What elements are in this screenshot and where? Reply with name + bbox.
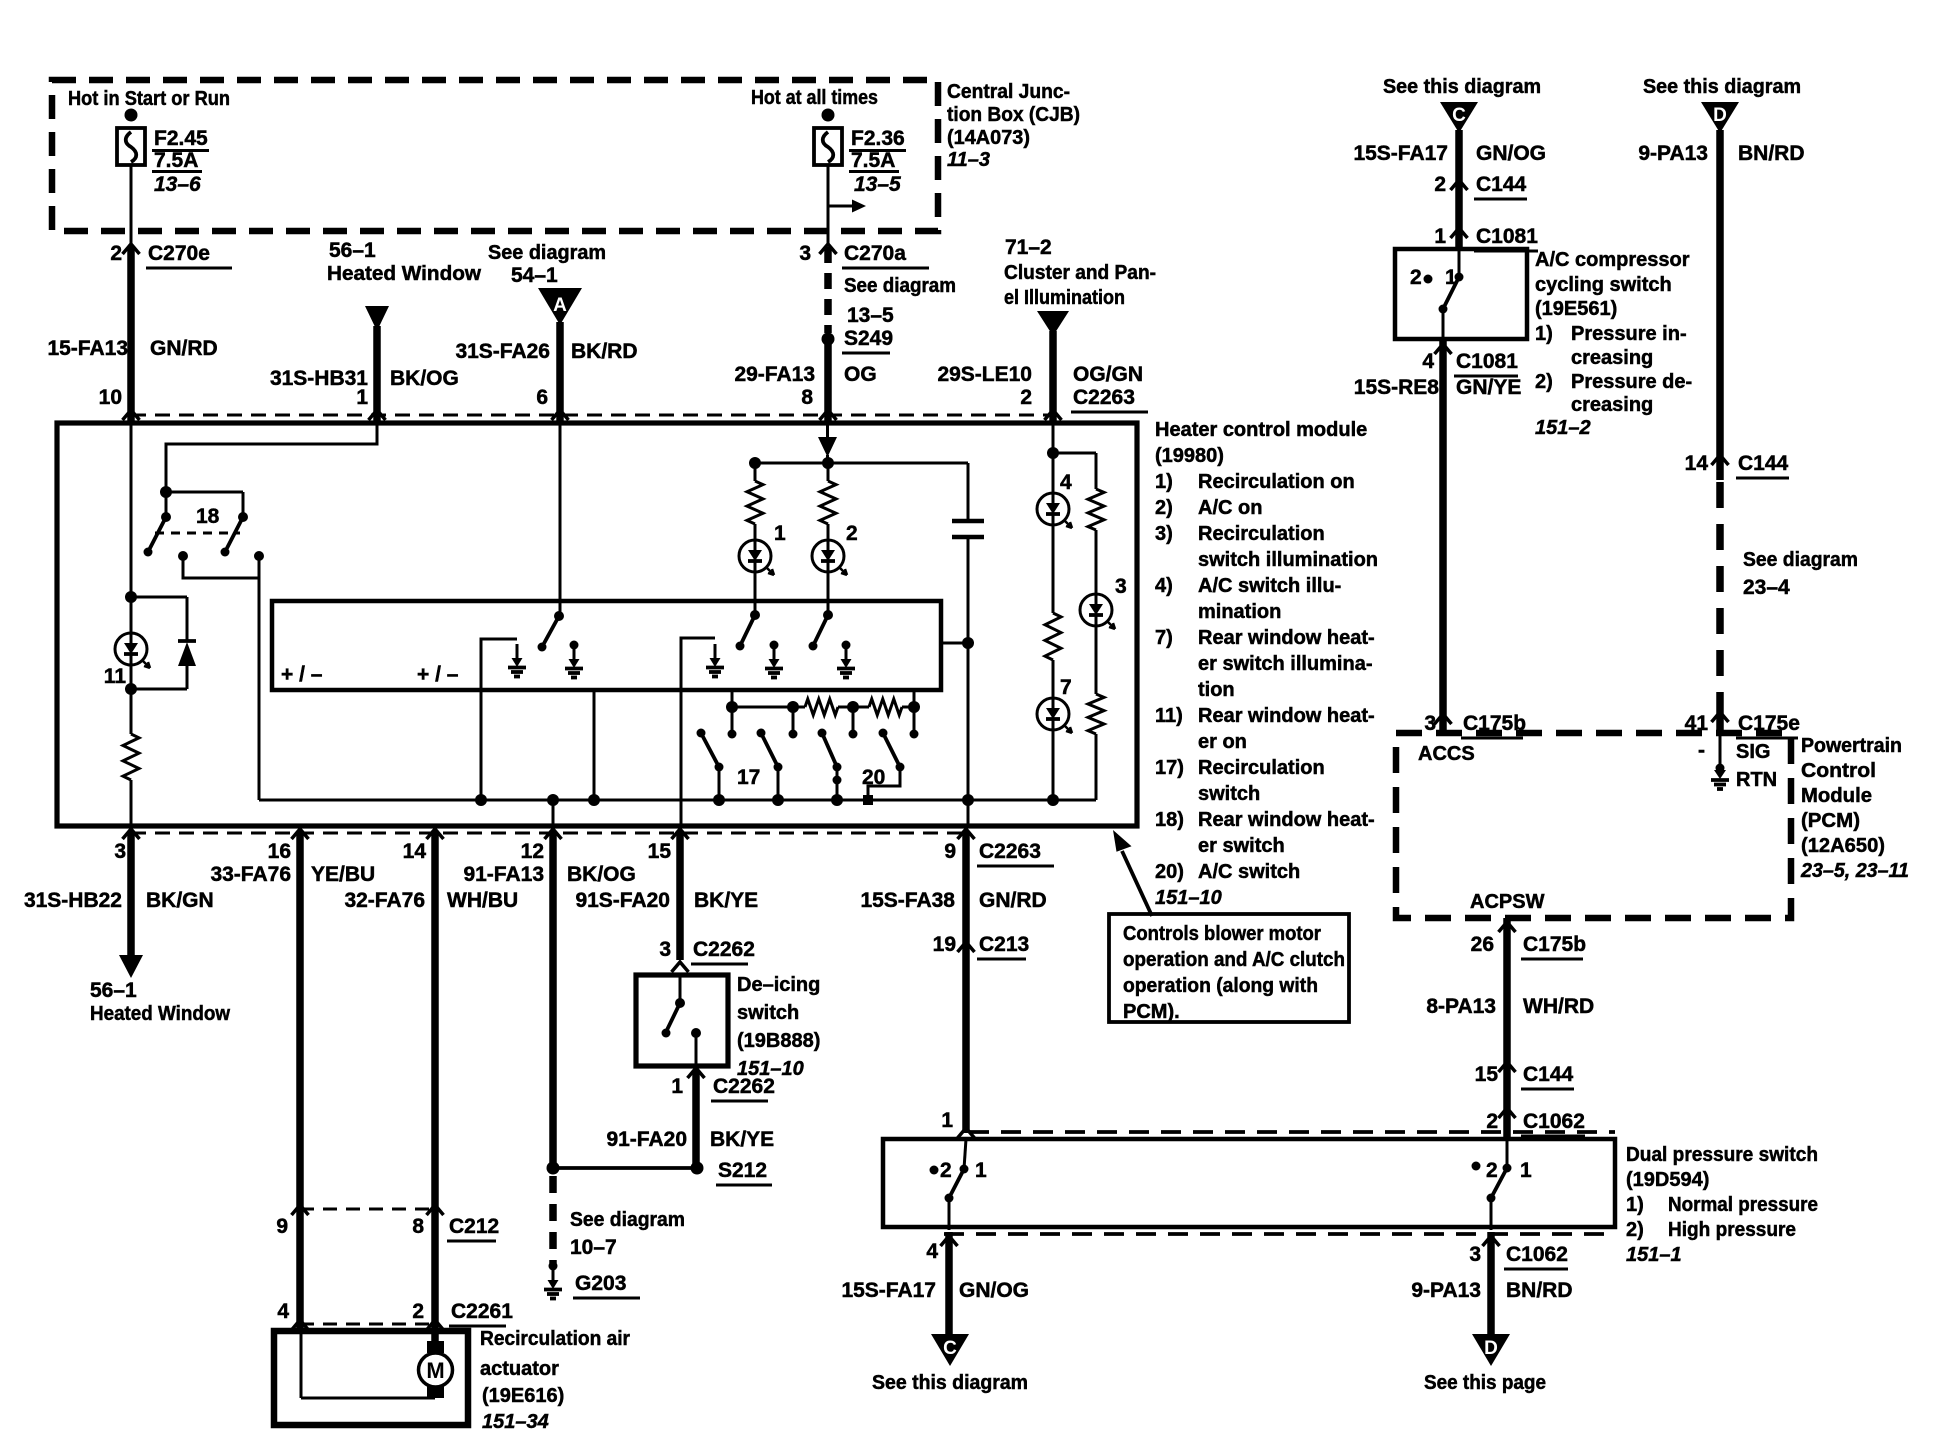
triangle marker A (538, 288, 582, 325)
LED 11 bottom rail (131, 688, 187, 691)
ground contact G-b (570, 641, 579, 650)
svg-text:20): 20) (1155, 861, 1184, 883)
svg-text:11–3: 11–3 (947, 149, 990, 171)
svg-text:See this diagram: See this diagram (1643, 76, 1801, 98)
connector C1062 chevron top (1499, 1108, 1516, 1118)
connector C213 chevron (958, 942, 975, 952)
svg-text:7.5A: 7.5A (154, 149, 198, 172)
svg-text:2): 2) (1535, 371, 1553, 393)
chevron at ACPSW exit (1499, 922, 1516, 932)
top distribution line to LEDs and capacitor (755, 462, 968, 465)
svg-text:31S-FA26: 31S-FA26 (455, 340, 550, 363)
svg-text:switch illumination: switch illumination (1198, 549, 1378, 571)
svg-text:15-FA13: 15-FA13 (47, 337, 128, 360)
module bottom connector dashed line (131, 832, 968, 835)
svg-text:M: M (426, 1358, 444, 1383)
svg-text:17: 17 (737, 766, 760, 789)
connector C175b chevron at PCM (1435, 714, 1452, 724)
arrow to 56-1 Heated Window (119, 955, 143, 978)
wire pin 12 to bottom rail (552, 800, 555, 826)
svg-text:el Illumination: el Illumination (1004, 287, 1125, 309)
splice S212 junction dot right (691, 1162, 704, 1175)
svg-text:3: 3 (1424, 712, 1436, 735)
CJB dashed enclosure box (Central Junction Box) (52, 80, 938, 231)
junction dot capacitor branch to inner box (962, 637, 974, 649)
svg-text:PCM).: PCM). (1123, 1001, 1180, 1023)
svg-text:C175b: C175b (1463, 712, 1526, 735)
De-icing switch box (636, 975, 728, 1066)
svg-text:15S-FA17: 15S-FA17 (841, 1279, 936, 1302)
svg-text:actuator: actuator (480, 1358, 559, 1380)
wire 15-FA13 GN/RD (thick) (127, 246, 135, 423)
svg-text:15: 15 (648, 840, 672, 863)
callout arrow to module corner (1122, 851, 1152, 916)
svg-text:9: 9 (276, 1215, 288, 1238)
wire 91-FA13 BK/OG (thick) (549, 831, 557, 1168)
svg-text:A/C switch illu-: A/C switch illu- (1198, 575, 1341, 597)
svg-text:54–1: 54–1 (511, 264, 558, 287)
connector C2261 dashed line (300, 1323, 435, 1326)
chevron below cycling switch (1435, 344, 1452, 354)
svg-text:See diagram: See diagram (488, 242, 606, 264)
svg-text:S212: S212 (718, 1159, 767, 1182)
svg-text:Controls blower motor: Controls blower motor (1123, 923, 1321, 945)
connector C270a chevron (820, 244, 837, 254)
wire fuse F2.45 to CJB edge (130, 165, 133, 243)
svg-text:OG: OG (844, 363, 877, 386)
junction dot LED 11 top (125, 591, 137, 603)
svg-text:C2262: C2262 (713, 1075, 775, 1098)
svg-text:GN/YE: GN/YE (1456, 376, 1521, 399)
svg-text:BK/RD: BK/RD (571, 340, 638, 363)
internal connection box-bottom to rail (593, 690, 596, 800)
svg-text:14: 14 (1685, 452, 1709, 475)
svg-text:151–2: 151–2 (1535, 417, 1591, 439)
wire 33-FA76 YE/BU (thick) (296, 831, 304, 1331)
svg-text:4: 4 (277, 1300, 289, 1323)
LED 11 parallel diode top rail (131, 596, 187, 599)
wire ACPSW to dual pressure switch (thick) (1503, 918, 1511, 1139)
LED 2 switch lever (823, 610, 833, 620)
svg-text:32-FA76: 32-FA76 (344, 889, 425, 912)
svg-text:BN/RD: BN/RD (1738, 142, 1805, 165)
svg-text:operation (along with: operation (along with (1123, 975, 1318, 997)
svg-text:ACCS: ACCS (1418, 743, 1475, 765)
svg-text:71–2: 71–2 (1005, 236, 1052, 259)
svg-text:C2263: C2263 (1073, 386, 1135, 409)
svg-text:15S-RE8: 15S-RE8 (1354, 376, 1440, 399)
Dual pressure switch box (19D594) (883, 1139, 1615, 1227)
svg-text:19: 19 (933, 933, 956, 956)
svg-text:1: 1 (941, 1109, 953, 1132)
svg-text:operation and A/C clutch: operation and A/C clutch (1123, 949, 1345, 971)
svg-text:C175e: C175e (1738, 712, 1800, 735)
dual pressure left switch pins and lever (964, 1139, 966, 1169)
svg-text:4: 4 (1422, 350, 1434, 373)
svg-text:C1081: C1081 (1456, 350, 1518, 373)
svg-text:2): 2) (1626, 1219, 1644, 1241)
LED 1 branch with resistor (754, 463, 757, 481)
svg-text:91-FA13: 91-FA13 (463, 863, 544, 886)
svg-text:13–5: 13–5 (847, 304, 894, 327)
svg-text:7): 7) (1155, 627, 1173, 649)
chevron below dual pressure switch left (941, 1236, 958, 1246)
svg-text:1): 1) (1155, 471, 1173, 493)
connector C212 dashed line (300, 1208, 435, 1211)
svg-text:See this diagram: See this diagram (872, 1372, 1028, 1394)
svg-text:D: D (1713, 105, 1727, 126)
svg-text:151–10: 151–10 (1155, 887, 1222, 909)
svg-text:BN/RD: BN/RD (1506, 1279, 1573, 1302)
svg-text:Control: Control (1801, 760, 1876, 782)
svg-text:2: 2 (1020, 386, 1032, 409)
wire 91S-FA20 BK/YE (thick) (676, 831, 684, 960)
control electronics inner box (272, 601, 941, 690)
wire 32-FA76 WH/BU (thick) (431, 831, 439, 1345)
svg-text:(PCM): (PCM) (1801, 810, 1860, 832)
svg-text:17): 17) (1155, 757, 1184, 779)
svg-text:C: C (943, 1338, 957, 1359)
svg-text:C2262: C2262 (693, 938, 755, 961)
LED 2 branch with resistor (827, 463, 830, 481)
svg-text:A/C switch: A/C switch (1198, 861, 1300, 883)
svg-text:3: 3 (1115, 575, 1127, 598)
connector C1081 chevron top (1451, 228, 1468, 238)
resistor below LED 11 (130, 689, 133, 734)
svg-text:See diagram: See diagram (1743, 549, 1858, 571)
svg-text:(19D594): (19D594) (1626, 1169, 1709, 1191)
connector C270e chevron (123, 244, 140, 254)
svg-text:BK/YE: BK/YE (694, 889, 758, 912)
switch 17 lever b (757, 729, 766, 738)
triangle marker D bottom (1472, 1334, 1510, 1366)
svg-text:er on: er on (1198, 731, 1247, 753)
stub inner box right edge to capacitor branch (941, 642, 968, 645)
svg-text:29S-LE10: 29S-LE10 (937, 363, 1032, 386)
module bottom common rail (259, 799, 1096, 802)
svg-text:8: 8 (412, 1215, 424, 1238)
wire dashed segment to 23-4 (1716, 482, 1724, 692)
svg-text:(14A073): (14A073) (947, 127, 1030, 149)
svg-text:Hot at all times: Hot at all times (751, 87, 878, 109)
switch 18 contacts (178, 551, 188, 561)
svg-text:De–icing: De–icing (737, 974, 820, 996)
svg-text:GN/RD: GN/RD (979, 889, 1047, 912)
LED 4 indicator (1052, 453, 1055, 493)
wire 15S-RE8 GN/YE (thick) (1439, 341, 1447, 733)
switch 17 lever a (697, 729, 706, 738)
svg-text:C2263: C2263 (979, 840, 1041, 863)
svg-text:16: 16 (268, 840, 291, 863)
right column resistor above LED 3 (1095, 453, 1098, 489)
svg-text:F2.45: F2.45 (154, 127, 208, 150)
internal ground G-c with feed jog to pin 15 (681, 638, 715, 826)
svg-text:2: 2 (846, 522, 858, 545)
triangle marker C bottom (931, 1334, 969, 1366)
svg-text:7.5A: 7.5A (851, 149, 895, 172)
svg-text:Recirculation on: Recirculation on (1198, 471, 1355, 493)
svg-text:GN/OG: GN/OG (1476, 142, 1546, 165)
wire C270a dashed segment (824, 247, 832, 333)
wire 29-FA13 OG (thick) (824, 339, 832, 423)
svg-text:WH/RD: WH/RD (1523, 995, 1594, 1018)
svg-text:2: 2 (1434, 173, 1446, 196)
svg-text:GN/OG: GN/OG (959, 1279, 1029, 1302)
svg-text:15: 15 (1475, 1063, 1499, 1086)
svg-text:C1062: C1062 (1506, 1243, 1568, 1266)
wire switch 18 contact to bottom rail (258, 556, 261, 800)
svg-text:8-PA13: 8-PA13 (1426, 995, 1496, 1018)
svg-text:56–1: 56–1 (329, 239, 376, 262)
chevron at dual pressure switch entry (958, 1128, 975, 1138)
LED 3 indicator (1080, 594, 1112, 626)
wire 15S-FA17 GN/OG top (thick) (1455, 130, 1463, 248)
svg-text:4: 4 (1060, 471, 1072, 494)
svg-text:4): 4) (1155, 575, 1173, 597)
svg-text:cycling switch: cycling switch (1535, 274, 1672, 296)
resistor below LED 4 (1052, 525, 1055, 613)
ground contact G-d (770, 641, 779, 650)
connector C2262 chevron bottom (688, 1068, 705, 1078)
svg-text:C1081: C1081 (1476, 225, 1538, 248)
wire from pin 1 to switch 18 (166, 423, 377, 491)
svg-text:C1062: C1062 (1523, 1110, 1585, 1133)
svg-text:C2261: C2261 (451, 1300, 513, 1323)
svg-text:er switch: er switch (1198, 835, 1285, 857)
connector C2262 chevron top (672, 962, 689, 972)
svg-text:OG/GN: OG/GN (1073, 363, 1143, 386)
switch 18 left lever (165, 492, 168, 517)
svg-text:9: 9 (944, 840, 956, 863)
callout box Controls blower motor (1109, 914, 1349, 1022)
wire to C175e (thick) (1716, 692, 1724, 733)
svg-text:High pressure: High pressure (1668, 1219, 1796, 1241)
svg-text:91S-FA20: 91S-FA20 (575, 889, 670, 912)
svg-text:15S-FA38: 15S-FA38 (860, 889, 955, 912)
svg-text:Heated Window: Heated Window (90, 1003, 230, 1025)
switch 20 lever b (879, 729, 888, 738)
fuse F2.45 symbol (125, 109, 138, 122)
svg-text:C212: C212 (449, 1215, 499, 1238)
splice S212 junction dot (547, 1162, 560, 1175)
svg-text:BK/OG: BK/OG (567, 863, 636, 886)
connector C144 chevron mid (1499, 1062, 1516, 1072)
switch 18 right lever (242, 492, 245, 517)
svg-text:41: 41 (1685, 712, 1709, 735)
svg-text:12: 12 (521, 840, 544, 863)
svg-text:13–6: 13–6 (154, 173, 201, 196)
motor M symbol (427, 1341, 444, 1353)
svg-text:BK/YE: BK/YE (710, 1128, 774, 1151)
svg-text:20: 20 (862, 766, 885, 789)
dual pressure switch dashed lines (969, 1130, 1615, 1134)
svg-text:31S-HB22: 31S-HB22 (24, 889, 122, 912)
svg-text:(19E616): (19E616) (482, 1385, 564, 1407)
chevrons at module top pins (123, 410, 140, 420)
A/C compressor cycling switch box (19E561) (1395, 249, 1527, 339)
junction dot switch 18 feed (160, 486, 172, 498)
wire 31S-FA26 BK/RD (thick) (556, 322, 564, 423)
svg-text:C: C (1452, 105, 1466, 126)
svg-text:6: 6 (536, 386, 548, 409)
svg-text:GN/RD: GN/RD (150, 337, 218, 360)
svg-text:33-FA76: 33-FA76 (210, 863, 291, 886)
resistor below LED 3 (1095, 626, 1098, 694)
svg-text:SIG: SIG (1736, 741, 1770, 763)
svg-text:2): 2) (1155, 497, 1173, 519)
svg-text:Recirculation: Recirculation (1198, 523, 1325, 545)
svg-text:2: 2 (1486, 1110, 1498, 1133)
capacitor C-a (967, 463, 970, 521)
svg-text:10: 10 (99, 386, 122, 409)
diode D1 beside LED 11 (cathode up) (186, 597, 189, 641)
svg-text:1: 1 (356, 386, 368, 409)
svg-text:BK/OG: BK/OG (390, 367, 459, 390)
svg-text:mination: mination (1198, 601, 1281, 623)
svg-text:-: - (1698, 739, 1705, 762)
PCM dashed box (1396, 733, 1791, 918)
svg-text:8: 8 (801, 386, 813, 409)
svg-text:F2.36: F2.36 (851, 127, 905, 150)
svg-text:creasing: creasing (1571, 394, 1653, 416)
svg-text:C270a: C270a (844, 242, 906, 265)
wire 15S-FA38 GN/RD (thick) (962, 831, 970, 1133)
svg-text:C144: C144 (1738, 452, 1789, 475)
pin 8 feed arrow inside module (818, 437, 837, 457)
svg-text:2: 2 (1486, 1159, 1498, 1182)
svg-text:ACPSW: ACPSW (1470, 891, 1545, 913)
svg-text:3: 3 (659, 938, 671, 961)
switch 18 gang dashed link (155, 532, 240, 535)
svg-text:1: 1 (1520, 1159, 1532, 1182)
svg-text:A/C on: A/C on (1198, 497, 1262, 519)
connector C144 chevron top (1451, 180, 1468, 190)
svg-text:18): 18) (1155, 809, 1184, 831)
svg-text:Module: Module (1801, 785, 1872, 807)
svg-text:1: 1 (671, 1075, 683, 1098)
Recirculation air actuator box (274, 1331, 468, 1425)
svg-text:14: 14 (403, 840, 427, 863)
svg-text:YE/BU: YE/BU (311, 863, 375, 886)
internal ground G-a with feed jog (481, 639, 517, 690)
wire 31S-HB31 BK/OG (thick) (373, 326, 381, 423)
dual pressure right switch pins and lever (1506, 1139, 1509, 1168)
svg-text:BK/GN: BK/GN (146, 889, 214, 912)
svg-text:C144: C144 (1476, 173, 1527, 196)
arrow triangle into wire 29S-LE10 (1037, 311, 1069, 336)
svg-text:switch: switch (737, 1002, 799, 1024)
svg-text:3): 3) (1155, 523, 1173, 545)
PCM internal signal return ground (1719, 733, 1722, 770)
svg-text:2: 2 (1410, 266, 1422, 289)
svg-text:2: 2 (412, 1300, 424, 1323)
svg-text:Powertrain: Powertrain (1801, 735, 1902, 757)
LED cluster feed from pin 2 C2263 (1052, 423, 1055, 453)
Heater control module box (19980) (57, 423, 1137, 826)
switch (pin 6 feed) inside inner box (559, 423, 562, 616)
triangle marker D top (1701, 102, 1739, 133)
svg-text:23–4: 23–4 (1743, 576, 1790, 599)
switch 18 top rail (166, 491, 243, 494)
switch 20 lever a (818, 729, 827, 738)
svg-text:2: 2 (940, 1159, 952, 1182)
svg-text:151–1: 151–1 (1626, 1244, 1682, 1266)
module top connector dashed line (131, 414, 1053, 417)
svg-text:Pressure in-: Pressure in- (1571, 323, 1687, 345)
svg-text:(19980): (19980) (1155, 445, 1224, 467)
svg-text:S249: S249 (844, 327, 893, 350)
module internal wire from pin 10 to LED 11 (130, 423, 133, 597)
svg-text:D: D (1484, 1338, 1498, 1359)
svg-text:+ / –: + / – (281, 663, 323, 686)
svg-text:(12A650): (12A650) (1801, 835, 1885, 857)
svg-text:91-FA20: 91-FA20 (606, 1128, 687, 1151)
svg-text:G203: G203 (575, 1272, 626, 1295)
de-icing switch lever (679, 975, 682, 1003)
svg-text:Dual pressure switch: Dual pressure switch (1626, 1144, 1818, 1166)
splice S249 junction dot (822, 333, 835, 346)
cycling switch lever and pins (1458, 249, 1461, 277)
ground G203 (549, 1262, 558, 1271)
svg-text:See diagram: See diagram (570, 1209, 685, 1231)
svg-text:Heated Window: Heated Window (327, 263, 481, 285)
svg-text:151–34: 151–34 (482, 1411, 549, 1433)
fuse F2.36 symbol (822, 109, 835, 122)
svg-text:1: 1 (1434, 225, 1446, 248)
wire 29S-LE10 OG/GN (thick) (1049, 331, 1057, 423)
svg-text:See diagram: See diagram (844, 275, 956, 297)
svg-text:+ / –: + / – (417, 663, 459, 686)
svg-text:Rear window heat-: Rear window heat- (1198, 627, 1375, 649)
svg-text:C270e: C270e (148, 242, 210, 265)
wire fuse F2.36 down with right branch arrow (827, 165, 830, 243)
junction dot LED 11 bottom (125, 683, 137, 695)
svg-text:Recirculation air: Recirculation air (480, 1328, 630, 1350)
svg-text:Recirculation: Recirculation (1198, 757, 1325, 779)
svg-text:Central Junc-: Central Junc- (947, 81, 1070, 103)
svg-text:See this diagram: See this diagram (1383, 76, 1541, 98)
svg-text:56–1: 56–1 (90, 979, 137, 1002)
svg-text:31S-HB31: 31S-HB31 (270, 367, 368, 390)
svg-text:3: 3 (1469, 1243, 1481, 1266)
svg-text:7: 7 (1060, 676, 1072, 699)
svg-text:23–5, 23–11: 23–5, 23–11 (1800, 860, 1909, 882)
svg-text:Rear window heat-: Rear window heat- (1198, 705, 1375, 727)
svg-text:1): 1) (1626, 1194, 1644, 1216)
svg-text:Normal pressure: Normal pressure (1668, 1194, 1818, 1216)
svg-text:RTN: RTN (1736, 769, 1777, 791)
wire to G203 dashed segment (549, 1176, 557, 1266)
svg-text:18: 18 (196, 505, 220, 528)
LED 1 switch lever (750, 610, 760, 620)
svg-text:C213: C213 (979, 933, 1029, 956)
connector C175e chevron (1712, 712, 1729, 722)
arrow triangle into wire 31S-HB31 (365, 306, 389, 331)
LED 11 indicator (130, 597, 133, 633)
svg-text:29-FA13: 29-FA13 (734, 363, 815, 386)
wire 15S-FA17 GN/OG (thick) (945, 1232, 953, 1334)
svg-text:15S-FA17: 15S-FA17 (1353, 142, 1448, 165)
chevrons at module bottom pins (123, 829, 140, 839)
chevron below dual pressure switch right (1483, 1236, 1500, 1246)
svg-text:tion Box (CJB): tion Box (CJB) (947, 104, 1080, 126)
svg-text:9-PA13: 9-PA13 (1411, 1279, 1481, 1302)
svg-text:er switch illumina-: er switch illumina- (1198, 653, 1372, 675)
svg-text:2: 2 (110, 242, 122, 265)
svg-text:(19B888): (19B888) (737, 1030, 820, 1052)
svg-text:C175b: C175b (1523, 933, 1586, 956)
svg-text:A/C compressor: A/C compressor (1535, 249, 1690, 271)
